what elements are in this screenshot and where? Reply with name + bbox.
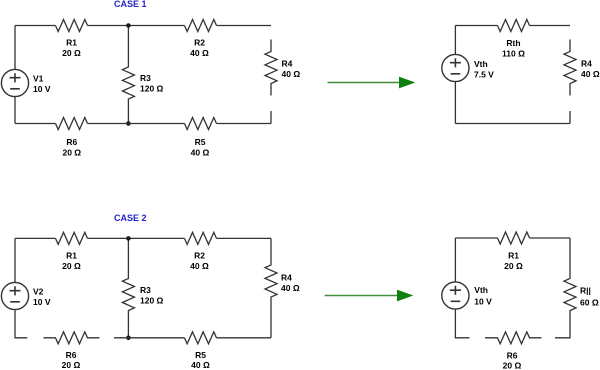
svg-text:20 Ω: 20 Ω (503, 361, 522, 370)
svg-text:R1: R1 (66, 38, 77, 48)
svg-text:110 Ω: 110 Ω (502, 48, 525, 58)
svg-text:40 Ω: 40 Ω (191, 360, 210, 370)
svg-text:V1: V1 (33, 73, 44, 83)
svg-text:R6: R6 (66, 350, 77, 360)
svg-text:20 Ω: 20 Ω (62, 48, 81, 58)
resistor R3 (case2) (122, 238, 134, 337)
svg-text:60 Ω: 60 Ω (580, 297, 599, 307)
voltage source Vth (case2) (442, 282, 469, 309)
svg-text:40 Ω: 40 Ω (581, 69, 600, 79)
resistor Rparallel (555, 238, 576, 338)
wire bottom left (15, 123, 56, 125)
resistor R5 (case2) (185, 332, 217, 344)
svg-text:10 V: 10 V (33, 84, 51, 94)
svg-text:20 Ω: 20 Ω (62, 147, 81, 157)
svg-text:Rth: Rth (506, 38, 520, 48)
svg-text:R||: R|| (580, 286, 591, 296)
svg-text:20 Ω: 20 Ω (504, 261, 523, 271)
node case2 bottom junction (126, 336, 131, 341)
svg-text:R3: R3 (140, 73, 151, 83)
svg-text:20 Ω: 20 Ω (62, 261, 81, 271)
svg-text:R5: R5 (195, 137, 206, 147)
wire case2 bottom right (217, 337, 272, 339)
svg-text:R6: R6 (507, 350, 518, 360)
svg-text:120 Ω: 120 Ω (140, 295, 164, 305)
svg-text:40 Ω: 40 Ω (190, 261, 209, 271)
resistor R5 (185, 118, 217, 130)
resistor Rth (498, 20, 530, 32)
resistor R1 (case2 right) (498, 232, 530, 244)
resistor R2 (185, 20, 217, 32)
wire top right (217, 25, 272, 27)
wire case2 top left (15, 237, 56, 239)
svg-text:CASE 2: CASE 2 (114, 213, 147, 223)
voltage source V2 (1, 282, 28, 309)
wire top left (15, 25, 56, 27)
svg-text:R1: R1 (66, 251, 77, 261)
svg-text:R4: R4 (581, 59, 592, 69)
wire right stub bottom (270, 111, 272, 124)
wire case2 right circuit left vertical (455, 238, 469, 338)
svg-text:10 V: 10 V (474, 297, 492, 307)
wire case2 bottom mid (114, 337, 185, 339)
svg-text:R4: R4 (281, 272, 292, 282)
wire case2 top mid (88, 237, 185, 239)
resistor R6 (case2, lifted) (44, 332, 100, 344)
svg-text:120 Ω: 120 Ω (140, 83, 164, 93)
svg-text:R6: R6 (66, 137, 77, 147)
resistor R1 (56, 20, 88, 32)
resistor R4 load (case1 right) (564, 40, 576, 96)
svg-text:V2: V2 (33, 286, 44, 296)
node case2 top junction (126, 236, 131, 241)
svg-text:40 Ω: 40 Ω (191, 147, 210, 157)
resistor R4 (case2) (265, 238, 277, 337)
wire bottom mid (88, 123, 185, 125)
svg-text:R2: R2 (194, 251, 205, 261)
wire case2 top right (217, 237, 272, 239)
voltage source Vth (case1) (442, 54, 469, 81)
svg-text:10 V: 10 V (33, 297, 51, 307)
svg-text:R5: R5 (195, 350, 206, 360)
svg-text:CASE 1: CASE 1 (114, 0, 147, 9)
wire left vertical (V1 branch) (14, 26, 16, 124)
svg-text:Vth: Vth (474, 59, 488, 69)
svg-text:20 Ω: 20 Ω (62, 360, 81, 370)
wire right circuit bottom (455, 123, 570, 125)
wire case2 right circuit top left (455, 237, 497, 239)
wire right circuit left vertical (454, 26, 456, 124)
svg-text:R1: R1 (508, 250, 519, 260)
wire right circuit top left (455, 25, 497, 27)
resistor R2 (case2) (185, 232, 217, 244)
node bottom junction (126, 121, 131, 126)
resistor R6 (56, 118, 88, 130)
svg-text:40 Ω: 40 Ω (281, 283, 300, 293)
voltage source V1 (1, 69, 28, 96)
arrow case2 (325, 295, 398, 297)
svg-text:40 Ω: 40 Ω (190, 48, 209, 58)
wire case2 left vertical (15, 238, 27, 337)
wire right circuit bottom stub (569, 111, 571, 124)
wire top mid (88, 25, 185, 27)
svg-text:R4: R4 (282, 59, 293, 69)
svg-text:Vth: Vth (474, 285, 488, 295)
svg-text:R3: R3 (140, 285, 151, 295)
wire bottom right (217, 123, 272, 125)
svg-text:R2: R2 (194, 38, 205, 48)
resistor R6 (case2 right, lifted) (485, 332, 542, 344)
svg-text:7.5 V: 7.5 V (474, 69, 494, 79)
svg-text:40 Ω: 40 Ω (282, 69, 301, 79)
wire case2 right circuit top right (530, 237, 571, 239)
resistor R1 (case2) (56, 232, 88, 244)
wire right circuit top right (530, 25, 571, 27)
node top junction (126, 23, 131, 28)
resistor R4 (disconnected leads) (265, 40, 277, 96)
resistor R3 (122, 26, 134, 124)
arrow case1 (328, 82, 401, 84)
